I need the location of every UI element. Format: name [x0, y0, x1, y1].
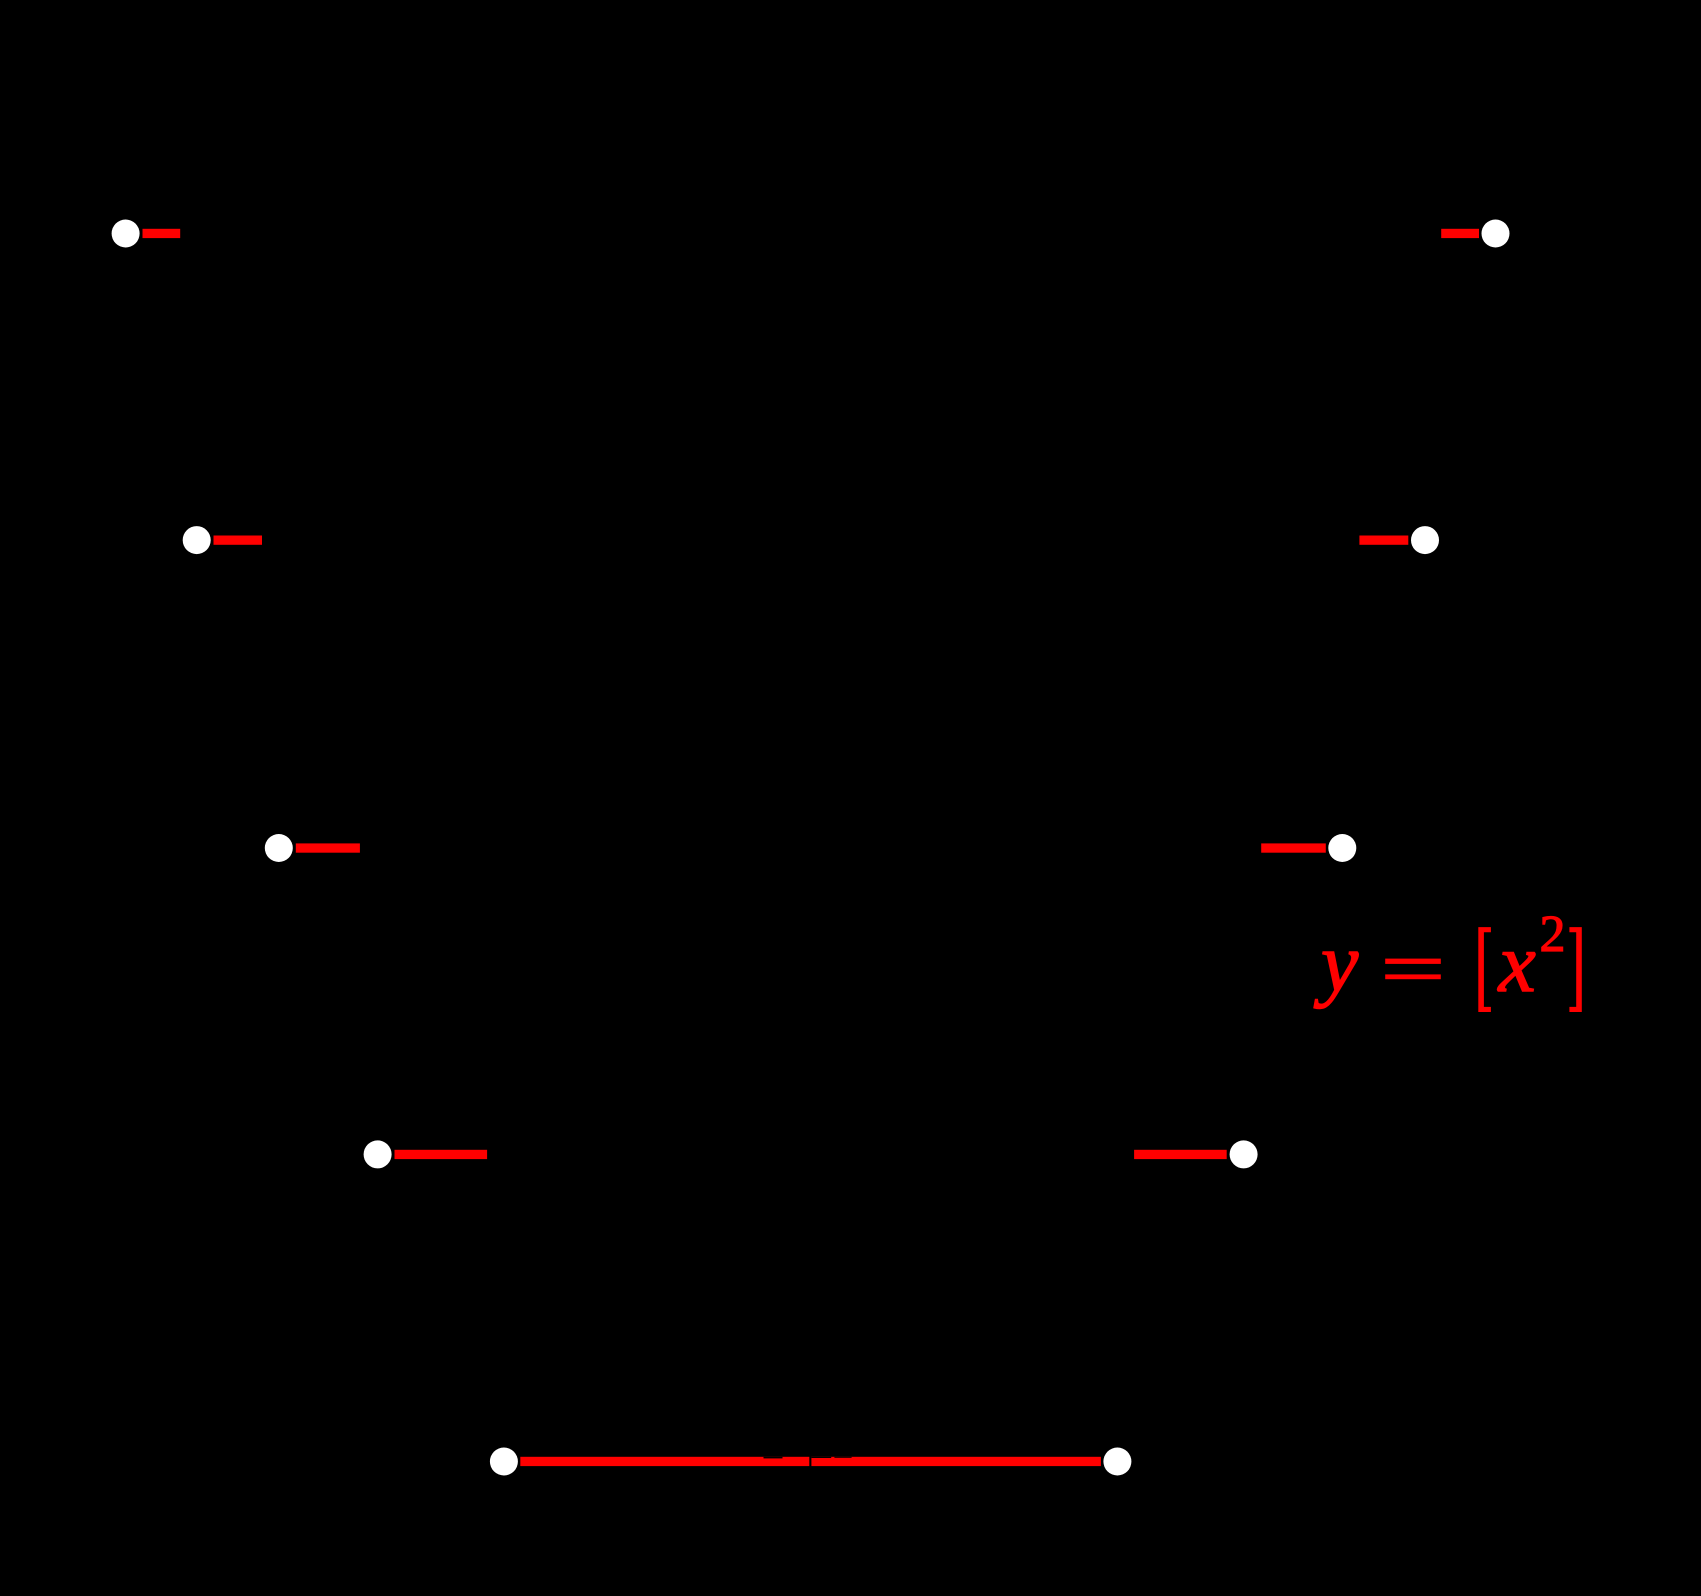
open endpoint dot at (sqrt3, 2) [1328, 834, 1356, 862]
open endpoint dot at (1, 0) [1103, 1448, 1131, 1476]
label right bracket [1569, 927, 1581, 1012]
segment y=3 right branch [1359, 536, 1408, 545]
label left bracket [1478, 927, 1491, 1012]
open endpoint dot at (sqrt5, 4) [1482, 220, 1510, 248]
segment y=1 right branch [1134, 1150, 1227, 1159]
open endpoint dot at (2, 3) [1411, 526, 1439, 554]
open endpoint dot at (-1, 0) [490, 1448, 518, 1476]
segment y=2 right branch [1261, 843, 1326, 852]
open endpoint dot at (-sqrt2, 1) [364, 1140, 392, 1168]
segment y=2 left branch [296, 843, 360, 852]
svg-text:2: 2 [1540, 906, 1566, 963]
black overlay chunk B on segment y=0 [811, 1457, 831, 1458]
segment y=4 left branch [143, 229, 181, 238]
open endpoint dot at (-sqrt3, 2) [265, 834, 293, 862]
segment y=0 from (-1,0) to (1,0) [520, 1457, 1101, 1466]
open endpoint dot at (sqrt2, 1) [1230, 1140, 1258, 1168]
black overlay chunk A on segment y=0 [764, 1457, 783, 1459]
black overlay chunk C on segment y=0 [834, 1457, 851, 1458]
svg-text:x: x [1497, 917, 1536, 1010]
open endpoint dot at (-2, 3) [183, 526, 211, 554]
segment y=3 left branch [214, 536, 263, 545]
label equals sign bottom bar [1385, 974, 1441, 979]
label equals sign top bar [1385, 959, 1441, 964]
segment y=1 left branch [395, 1150, 488, 1159]
open endpoint dot at (-sqrt5, 4) [112, 220, 140, 248]
y-axis crossing tick over segment y=0 [809, 1450, 811, 1468]
segment y=4 right branch [1441, 229, 1479, 238]
